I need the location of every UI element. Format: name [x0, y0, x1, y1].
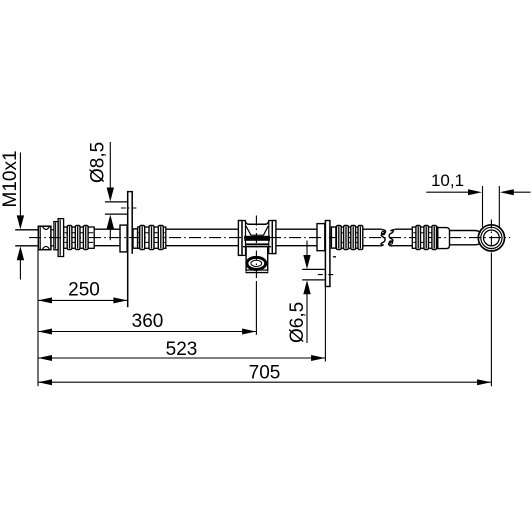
- crimp ferrule F2: [138, 226, 166, 250]
- hose segment B: [166, 229, 239, 246]
- crimp ferrule F4: [412, 226, 437, 250]
- svg-text:Ø8,5: Ø8,5: [88, 142, 109, 183]
- bracket B1 grommet left: [120, 225, 127, 252]
- crimp ferrule F3: [336, 226, 363, 250]
- bracket B2 grommet left: [317, 224, 325, 251]
- dimension 250: [38, 280, 128, 304]
- left datum extension line: [37, 250, 39, 387]
- svg-text:Ø6,5: Ø6,5: [287, 302, 308, 343]
- banjo vertical centerline: [490, 220, 492, 387]
- hose break right: [389, 230, 395, 246]
- bracket B1 grommet right: [133, 229, 138, 248]
- clip saddle: [243, 221, 271, 247]
- bracket B2 grommet right: [331, 227, 336, 248]
- label dia 6,5 with leader arrows: [287, 241, 311, 344]
- hose segment A: [94, 229, 120, 246]
- washer stack: [54, 219, 64, 257]
- label M10x1 with leader arrows: [0, 150, 24, 279]
- hose segment C: [276, 229, 317, 246]
- banjo eye rings: [478, 225, 504, 251]
- svg-text:705: 705: [249, 362, 281, 383]
- bracket B2 hole lines: [302, 257, 336, 280]
- dimension 10,1: [426, 171, 530, 227]
- hose break left: [380, 230, 386, 246]
- clip right flange: [269, 221, 276, 254]
- bracket B2 plate: [325, 220, 331, 361]
- dimension 523: [38, 339, 325, 361]
- hex nut: [38, 226, 54, 250]
- clip tab: [246, 247, 269, 272]
- clip hole dia 6,5 (side view): [247, 257, 266, 269]
- hose segment D: [363, 229, 382, 246]
- bracket B1 hole lines: [105, 202, 138, 214]
- hose segment E: [392, 229, 412, 246]
- svg-text:10,1: 10,1: [431, 171, 464, 190]
- dimension 705: [38, 362, 491, 385]
- banjo socket sleeve: [438, 228, 450, 249]
- hose centerline: [29, 237, 510, 239]
- svg-text:M10x1: M10x1: [0, 150, 21, 207]
- clip centerline: [255, 216, 257, 335]
- svg-text:360: 360: [132, 311, 164, 332]
- thread stub M10: [15, 230, 38, 246]
- banjo neck: [450, 231, 481, 245]
- svg-text:250: 250: [68, 280, 100, 301]
- clip left flange: [238, 221, 245, 256]
- label dia 8,5 with leader arrows: [88, 142, 115, 240]
- dimension 360: [38, 311, 256, 335]
- svg-text:523: 523: [166, 339, 198, 360]
- bracket B1 plate: [127, 191, 133, 307]
- crimp ferrule F1: [64, 226, 95, 250]
